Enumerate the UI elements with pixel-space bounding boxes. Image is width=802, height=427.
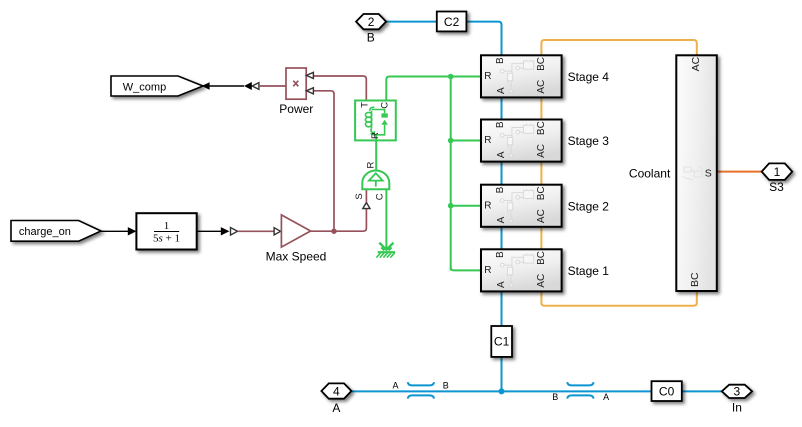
wire Stage 2 A to Stage 1 B (cyan) bbox=[501, 227, 503, 250]
svg-text:A: A bbox=[603, 392, 609, 402]
svg-text:Max Speed: Max Speed bbox=[266, 249, 327, 263]
svg-text:A: A bbox=[496, 87, 507, 94]
arrowhead at Transfer Fn input bbox=[128, 227, 137, 235]
ground (mechanical rotational reference) bbox=[376, 243, 395, 258]
goto tag W_comp bbox=[111, 76, 203, 96]
wire Coolant S to port 1 S3 (orange-red) bbox=[717, 171, 762, 173]
Coolant block bbox=[676, 55, 717, 291]
Simulink-PS converter (Max Speed line) bbox=[221, 227, 230, 235]
output port 3 (In) bbox=[722, 385, 752, 399]
svg-text:R: R bbox=[484, 71, 491, 82]
svg-text:B: B bbox=[495, 186, 506, 193]
svg-text:A: A bbox=[392, 380, 398, 390]
svg-text:Coolant: Coolant bbox=[629, 167, 671, 181]
wire Stage 2 AC to Stage 1 BC (orange) bbox=[540, 227, 542, 250]
wire B port to C2 (cyan) bbox=[386, 21, 437, 23]
svg-text:BC: BC bbox=[536, 121, 547, 135]
svg-text:1: 1 bbox=[774, 165, 781, 179]
svg-text:R: R bbox=[484, 200, 491, 211]
wire C0 to In port (cyan) bbox=[682, 390, 722, 392]
PS wire Max Speed output (maroon) bbox=[311, 209, 367, 232]
PS wire junction to Power lower input (maroon) bbox=[314, 91, 335, 231]
PS arrowhead at Max Speed input bbox=[274, 228, 281, 235]
svg-text:C2: C2 bbox=[444, 15, 460, 29]
arrowhead at W_comp tag bbox=[202, 82, 210, 90]
wire Stage 4 BC to Coolant AC (orange) bbox=[541, 40, 696, 55]
svg-text:B: B bbox=[495, 57, 506, 64]
svg-text:BC: BC bbox=[536, 251, 547, 265]
wire torque source C to ground bbox=[385, 189, 387, 249]
svg-text:A: A bbox=[496, 281, 507, 288]
svg-text:A: A bbox=[496, 151, 507, 158]
svg-text:AC: AC bbox=[536, 144, 547, 158]
svg-text:AC: AC bbox=[536, 80, 547, 94]
svg-text:B: B bbox=[367, 30, 375, 44]
svg-text:Stage 4: Stage 4 bbox=[568, 70, 610, 84]
wire Stage 3 AC to Stage 2 BC (orange) bbox=[540, 162, 542, 185]
wire Stage 1 AC to Coolant BC (orange) bbox=[541, 291, 696, 306]
stage block Stage 1 bbox=[481, 249, 562, 291]
svg-text:BC: BC bbox=[536, 186, 547, 200]
PS wire Power output to converter (maroon) bbox=[260, 85, 286, 87]
wire Stage 1 A to C1 (cyan) bbox=[501, 291, 503, 326]
PS wire solenoid T to Power upper input (maroon) bbox=[314, 76, 367, 101]
green junction dot middle bbox=[448, 138, 454, 144]
svg-text:In: In bbox=[732, 400, 742, 414]
signal wire Transfer Fn to converter (black) bbox=[197, 230, 223, 232]
connector brackets B-A on bus (right) bbox=[567, 382, 593, 398]
product block Power bbox=[286, 68, 306, 99]
green branch to Stage 3 R bbox=[451, 140, 481, 142]
PS stub from torque source S port bbox=[365, 189, 367, 202]
svg-text:S: S bbox=[354, 193, 365, 199]
green branch to Stage 1 R bbox=[451, 267, 481, 270]
svg-text:R: R bbox=[370, 132, 381, 139]
signal wire converter to W_comp (black) bbox=[205, 85, 244, 87]
svg-text:Power: Power bbox=[279, 102, 313, 116]
stage block Stage 2 bbox=[481, 185, 562, 227]
svg-text:A: A bbox=[332, 401, 340, 415]
svg-text:B: B bbox=[495, 251, 506, 258]
svg-text:C: C bbox=[380, 102, 391, 109]
Coolant faint icon bbox=[682, 166, 703, 180]
svg-text:2: 2 bbox=[368, 15, 375, 29]
green junction dot lower bbox=[448, 203, 454, 209]
green bus vertical bbox=[450, 77, 452, 271]
svg-text:C: C bbox=[374, 193, 385, 200]
svg-text:C0: C0 bbox=[659, 385, 675, 399]
transfer function block 1/(5s+1) bbox=[136, 213, 196, 249]
wire C2 to Stage 4 port B (cyan) bbox=[466, 22, 501, 56]
wire Stage 4 AC to Stage 3 BC (orange) bbox=[540, 97, 542, 119]
C2 block bbox=[437, 12, 467, 32]
svg-text:charge_on: charge_on bbox=[19, 226, 71, 238]
svg-text:Stage 3: Stage 3 bbox=[568, 134, 610, 148]
solenoid block bbox=[355, 101, 396, 141]
PS junction dot at Max Speed output bbox=[331, 229, 336, 234]
green junction dot top bbox=[448, 74, 454, 80]
svg-text:4: 4 bbox=[333, 385, 340, 399]
stage block Stage 3 bbox=[481, 120, 562, 162]
svg-text:R: R bbox=[365, 161, 376, 168]
input port 4 (A) bbox=[321, 383, 351, 398]
svg-text:T: T bbox=[360, 102, 371, 108]
svg-text:Stage 2: Stage 2 bbox=[568, 199, 610, 213]
svg-text:S3: S3 bbox=[769, 180, 784, 194]
signal wire charge_on to Transfer Fn (black) bbox=[101, 230, 129, 232]
torque source block (dome) bbox=[354, 161, 389, 200]
PS arrowhead into torque source S port bbox=[363, 203, 370, 209]
green branch to Stage 4 R bbox=[451, 76, 481, 78]
wire solenoid C to green bus bbox=[386, 77, 450, 101]
svg-text:S: S bbox=[705, 167, 712, 179]
svg-text:R: R bbox=[484, 265, 491, 276]
wire Stage 3 A to Stage 2 B (cyan) bbox=[501, 162, 503, 185]
svg-text:AC: AC bbox=[536, 209, 547, 223]
svg-text:3: 3 bbox=[734, 385, 741, 399]
svg-text:BC: BC bbox=[689, 272, 701, 287]
wire Stage 4 A to Stage 3 B (cyan) bbox=[501, 97, 503, 119]
svg-text:W_comp: W_comp bbox=[123, 81, 166, 93]
svg-text:B: B bbox=[443, 380, 449, 390]
stage block Stage 4 bbox=[481, 55, 562, 97]
svg-text:AC: AC bbox=[536, 274, 547, 288]
green branch to Stage 2 R bbox=[451, 205, 481, 207]
Power input port arrows (open triangles) bbox=[306, 72, 313, 78]
output port 1 (S3) bbox=[762, 163, 793, 180]
svg-text:A: A bbox=[496, 216, 507, 223]
wire A port to C0 bottom bus (cyan) bbox=[351, 390, 651, 392]
wire solenoid R to torque source R bbox=[375, 140, 377, 171]
input port 2 (B) bbox=[356, 14, 386, 29]
svg-text:R: R bbox=[484, 135, 491, 146]
C1 block bbox=[491, 326, 512, 357]
connector brackets A-B on bus (left) bbox=[408, 382, 434, 398]
svg-text:C1: C1 bbox=[494, 335, 510, 349]
svg-text:Stage 1: Stage 1 bbox=[568, 264, 610, 278]
svg-text:5s + 1: 5s + 1 bbox=[153, 233, 180, 245]
gain block Max Speed bbox=[281, 215, 310, 247]
svg-text:B: B bbox=[552, 392, 558, 402]
from tag charge_on bbox=[11, 221, 101, 242]
junction dot on bottom bus bbox=[499, 388, 505, 394]
svg-text:AC: AC bbox=[690, 56, 702, 71]
C0 block bbox=[652, 381, 682, 401]
svg-text:1: 1 bbox=[164, 220, 170, 232]
svg-text:BC: BC bbox=[536, 57, 547, 71]
PS-Simulink converter (W_comp line) bbox=[252, 83, 259, 90]
svg-text:B: B bbox=[495, 121, 506, 128]
PS wire converter to Max Speed (maroon) bbox=[238, 230, 274, 232]
wire C1 to bottom bus (cyan) bbox=[501, 357, 503, 392]
